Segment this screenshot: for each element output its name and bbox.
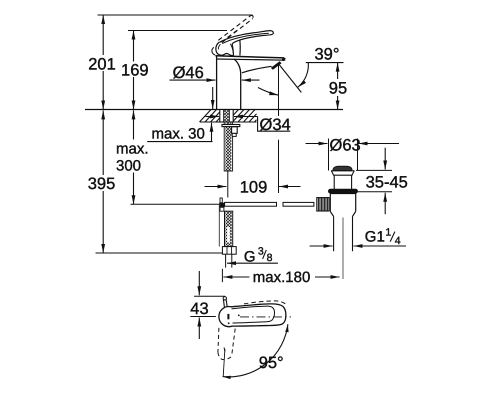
faucet deck top line [215,56,283,58]
lever front hook [212,47,215,55]
svg-text:max.: max. [116,141,149,158]
dimension max.180 [222,269,339,286]
max.30 upper marker arrow [212,87,214,109]
drain body [330,194,355,217]
faucet deck lower line [216,59,285,60]
395 bottom reference line [96,252,223,254]
svg-text:Ø46: Ø46 [173,64,204,82]
faucet body left edge [216,56,218,110]
pop-up plug cap [333,166,352,170]
pop-up rod horizontal [131,203,220,205]
label G1 1/4 [365,227,401,247]
svg-text:Ø63: Ø63 [330,136,361,154]
shank through counter [220,110,233,123]
svg-text:1: 1 [385,227,391,239]
drain tailpipe [334,216,353,251]
handle pin [223,297,227,308]
max.30 label [147,123,212,143]
ref line top (201) [98,14,253,16]
angle arc right [298,63,308,87]
handle top view outline [219,304,286,327]
svg-text:39°: 39° [315,46,340,64]
lever solid (paddle) [220,31,274,44]
svg-text:169: 169 [121,62,149,80]
svg-text:95: 95 [329,80,347,98]
label G3/8 [227,246,278,266]
lever raised (dashed) [218,15,253,42]
svg-text:95°: 95° [259,354,284,372]
dimension 95 [329,63,347,110]
aerator wedge [271,61,282,70]
rod bar 2 [283,202,314,206]
lever neck edges [232,40,240,55]
label Ø46 [170,64,260,82]
pull rod vertical [227,171,229,198]
rod bar 1 [225,202,277,206]
svg-text:max. 30: max. 30 [152,126,205,143]
spout extension line [278,65,280,194]
label 39° [315,46,340,64]
knurled connector at drain [317,198,329,211]
svg-text:Ø34: Ø34 [260,116,291,134]
countertop line [85,109,343,111]
dimension 201 [88,15,116,110]
hose end nut [222,247,236,255]
spout underside [242,66,272,73]
spout tip wedge [281,57,286,61]
lever front cap [216,42,234,55]
drain neck [334,175,351,189]
svg-text:201: 201 [88,55,116,73]
swung handle center line [223,349,225,377]
water stream line [279,65,301,93]
svg-text:G1: G1 [365,228,385,245]
95 degree arc [223,324,289,379]
handle center mark [228,314,240,324]
dimension 43 [190,271,225,339]
dimension max.300 [116,110,149,204]
svg-text:395: 395 [88,175,116,193]
svg-text:43: 43 [190,300,208,318]
dimension 109 [205,179,301,197]
dimension Ø34 arrows [206,116,258,118]
label 95° [259,354,284,372]
dimension 169 [121,31,149,110]
svg-text:4: 4 [395,235,401,247]
locknut [232,127,238,137]
drain flange [331,171,355,175]
ref line 169 [128,30,227,32]
countertop hatching [200,110,257,123]
drain center line [342,218,344,280]
dimension 35-45 [356,148,408,215]
svg-text:35-45: 35-45 [366,174,408,192]
angle arc left [258,88,278,96]
dimension Ø63 [306,136,400,170]
threaded shank lower [224,122,232,171]
handle inner line [232,306,275,323]
label Ø34 [258,116,291,134]
rod coupling [219,198,224,211]
handle center line [240,316,291,318]
svg-text:300: 300 [116,158,141,175]
hose end tube [226,254,232,267]
handle alt position dashes [244,301,287,305]
washer below counter [222,125,240,127]
handle swung position (dashed) [218,328,235,360]
39 degree reference horizontal line [306,62,344,64]
svg-text:8: 8 [267,252,273,264]
O-ring [328,189,358,194]
faucet body right edge with fillet [234,59,241,110]
svg-text:3: 3 [258,246,264,258]
dimension 395 [88,110,116,253]
second hose line [218,205,220,247]
svg-text:109: 109 [240,179,268,197]
svg-text:max.180: max.180 [253,269,311,286]
flexible hose braided [225,211,233,246]
dimension G1 1/4 arrows [310,245,406,247]
